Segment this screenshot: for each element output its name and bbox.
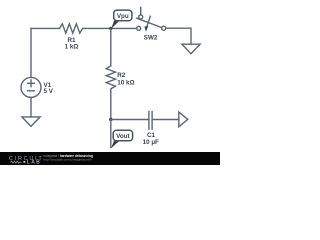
wire top-left horizontal <box>31 27 60 29</box>
wire junction down to R2 <box>110 28 112 65</box>
resistor R2 <box>106 66 115 91</box>
svg-text:SW2: SW2 <box>144 35 158 42</box>
svg-text:http://circuitlab.com/c/xwggbs: http://circuitlab.com/c/xwggbsbym9h <box>44 157 93 161</box>
resistor R1 <box>60 24 85 33</box>
wire junction down to Vout stub <box>110 120 112 148</box>
svg-text:5 V: 5 V <box>44 88 54 95</box>
voltage source V1 <box>21 77 41 97</box>
switch SW2 <box>137 7 166 31</box>
capacitor C1 <box>149 112 152 130</box>
ground below V1 <box>22 117 40 127</box>
ground top-right <box>182 44 200 54</box>
svg-text:10 µF: 10 µF <box>143 139 159 146</box>
svg-text:Vout: Vout <box>116 133 130 140</box>
wire R2 to bottom junction <box>110 91 112 120</box>
ground right (rotated) <box>179 112 188 127</box>
wire V1 to ground <box>30 97 32 117</box>
logo CircuitLab <box>9 156 44 166</box>
svg-text:10 kΩ: 10 kΩ <box>117 80 134 87</box>
svg-text:LAB: LAB <box>27 160 41 165</box>
node Vpu junction <box>109 27 112 30</box>
wire switch to right ground <box>166 28 191 44</box>
wire left vertical <box>30 28 32 77</box>
svg-text:C1: C1 <box>147 132 156 139</box>
svg-text:R2: R2 <box>117 72 126 79</box>
wire bottom rail to C1 <box>111 119 149 121</box>
footer watermark bar <box>0 152 220 166</box>
wire R1 to switch <box>84 27 137 29</box>
node Vout junction <box>109 118 112 121</box>
svg-text:Vpu: Vpu <box>117 13 129 20</box>
probe flag Vout <box>111 130 133 148</box>
wire C1 to right ground <box>152 119 179 121</box>
svg-text:1 kΩ: 1 kΩ <box>65 44 79 51</box>
probe flag Vpu <box>111 10 132 29</box>
